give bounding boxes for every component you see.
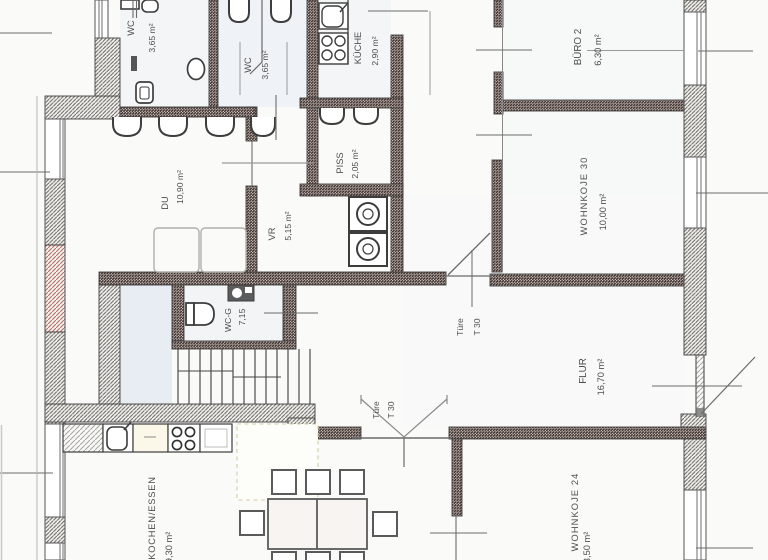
wall HD BUERO2 bottom [503, 100, 684, 111]
faucet mark WC1 [131, 56, 137, 71]
svg-text:T 30: T 30 [386, 401, 396, 418]
door leaf WC2 [275, 95, 277, 140]
faint page edge line bottom-left [1, 425, 3, 560]
svg-text:10,00 m²: 10,00 m² [598, 194, 608, 231]
svg-text:WOHNKOJE 24: WOHNKOJE 24 [570, 473, 580, 552]
wall V6 stub above VR [246, 107, 257, 141]
dim line top-left [0, 32, 52, 34]
chair right [373, 512, 397, 536]
double door swing kitchen [361, 395, 447, 437]
entrance leaf nub [697, 408, 704, 416]
wall right outer pier1 [684, 85, 706, 157]
wall right outer pier2 [684, 228, 706, 355]
basin row DU 1 [113, 117, 275, 136]
svg-text:WC: WC [243, 57, 253, 73]
room tint FLUR [403, 196, 684, 427]
dim line buero door [476, 49, 532, 51]
wall left outer red section [45, 245, 65, 332]
svg-text:13,50 m²: 13,50 m² [582, 532, 592, 560]
tick WC2 label right [286, 42, 288, 95]
svg-text:6,30 m²: 6,30 m² [593, 34, 603, 66]
door WOHNKOJE24 leaf [455, 516, 457, 560]
dim line top corridor [368, 10, 428, 12]
dim line left window1 [0, 171, 50, 173]
wall right outer top block [684, 0, 706, 12]
shower DU right [201, 228, 246, 272]
wall V5 WOHNKOJE30 left [492, 160, 502, 272]
shower DU left [154, 228, 199, 272]
svg-text:29,30 m²: 29,30 m² [164, 532, 174, 560]
wall HF right part [490, 274, 684, 286]
svg-text:PISS: PISS [335, 152, 345, 173]
svg-text:WC-G: WC-G [223, 308, 233, 332]
toilet WC-G [186, 303, 214, 325]
svg-text:WC: WC [126, 20, 136, 36]
svg-text:FLUR: FLUR [578, 358, 589, 384]
svg-text:Türe: Türe [371, 401, 381, 419]
dim line wohnkoje30 door [476, 134, 532, 136]
wall V5 BUERO2 left lower [494, 72, 503, 114]
kitchen sink KUECHE [319, 3, 348, 29]
chair left [240, 511, 264, 535]
threshold corridor door [446, 275, 492, 277]
wall left outer lower [45, 332, 65, 424]
dim line right window2 [696, 192, 768, 194]
svg-text:10,90 m²: 10,90 m² [175, 170, 185, 204]
stove KOCHEN circles [172, 427, 194, 449]
wall HG thick bottom [45, 404, 315, 422]
wall V6 VR left [246, 186, 257, 285]
chair top2 [306, 470, 330, 494]
tick WC2 label left [239, 42, 241, 95]
svg-text:3,65 m²: 3,65 m² [260, 50, 270, 79]
svg-text:16,70 m²: 16,70 m² [596, 359, 606, 396]
door swing corridor T30 [448, 233, 490, 275]
leader WC2 [250, 0, 262, 74]
room tint WC-G [184, 285, 283, 341]
dashed planned area [237, 424, 318, 500]
room tint WC1 [120, 0, 209, 107]
chair top1 [272, 470, 296, 494]
svg-text:WOHNKOJE 30: WOHNKOJE 30 [579, 157, 589, 236]
chair top3 [340, 470, 364, 494]
room tint KUECHE [318, 0, 391, 98]
kitchen counter KOCHEN [63, 424, 232, 452]
wall H5 left segment [315, 427, 361, 439]
dim line right window3 [696, 547, 753, 549]
dim line left window2 [0, 472, 53, 474]
appliance square 1 right of VR [349, 197, 387, 231]
window left upper [45, 119, 65, 179]
dining table [268, 499, 367, 549]
wall HB WC bottom [120, 107, 255, 117]
door leaf VR [251, 141, 253, 186]
window top [95, 0, 108, 38]
svg-text:5,15 m²: 5,15 m² [283, 211, 293, 240]
room tint BUERO2 [503, 0, 684, 100]
leader WC-G [264, 312, 318, 314]
leader T30 [471, 250, 473, 307]
appliance square 2 right of VR [349, 233, 387, 266]
faucet KOCHEN [124, 422, 131, 430]
wall HF left part [99, 272, 446, 285]
window right3 [684, 490, 706, 560]
dishwasher tick [144, 436, 156, 438]
svg-text:BÜRO 2: BÜRO 2 [573, 29, 584, 65]
dim tick top corridor vertical [429, 11, 431, 95]
wall H5 right segment [449, 427, 706, 439]
wall left outer upper [45, 179, 65, 245]
window right1 [684, 12, 706, 85]
toilet WC1 top [121, 0, 158, 12]
toilet WC2 left [229, 0, 291, 22]
entrance door leaf [696, 355, 704, 416]
chair bottom2 [306, 552, 330, 560]
svg-text:KÜCHE: KÜCHE [353, 32, 363, 65]
window right2 [684, 157, 706, 228]
entrance dim line [652, 385, 742, 387]
wall WC-G bottom [172, 341, 296, 349]
wall V9 WC-G right [283, 283, 296, 349]
pipe lines WC1 top [132, 0, 134, 18]
window left lower1 [45, 424, 65, 517]
entrance door swing [701, 357, 755, 414]
sink KOCHEN bowl [107, 427, 127, 450]
svg-text:KOCHEN/ESSEN: KOCHEN/ESSEN [147, 476, 157, 559]
svg-text:7,15: 7,15 [237, 308, 247, 325]
stairs treads [178, 349, 310, 404]
wall face line x502 [502, 0, 504, 272]
window left lower2 [45, 543, 65, 560]
room tint WC2 [218, 0, 307, 107]
room tint light-shaft room [120, 285, 172, 404]
stairs landing lines [178, 371, 281, 377]
wall HC KUECHE bottom [300, 98, 403, 108]
wall V10 WOHNKOJE24 left [452, 429, 462, 516]
urinal PISS 1 [320, 108, 378, 124]
sink WC-G top [228, 285, 254, 301]
wall V7 stair block left [99, 285, 120, 404]
stove KUECHE [319, 33, 348, 64]
wall V8 WC-G left [172, 283, 184, 349]
door WOHNKOJE24 tick [430, 532, 487, 534]
svg-text:T 30: T 30 [472, 318, 482, 335]
washbasin WC1 round right [188, 59, 205, 80]
wall V2 between WC1 and WC2 [209, 0, 218, 107]
svg-text:VR: VR [267, 227, 277, 240]
svg-text:Türe: Türe [455, 318, 465, 336]
wall V5 BUERO2 left upper [494, 0, 503, 27]
chair bottom1 [272, 552, 296, 560]
wall V4 KUECHE/PISS right [391, 35, 403, 275]
dim line buero window inner [587, 50, 684, 52]
wall top-left corner block [45, 96, 120, 119]
center post kitchen door [403, 438, 405, 467]
wall right outer below entrance [681, 414, 706, 429]
wall top window pier [95, 38, 120, 96]
room tint WOHNKOJE30 [503, 111, 684, 272]
threshold kitchen double door [352, 437, 452, 439]
wall right outer pier3 [684, 429, 706, 490]
dim line right window1 [698, 50, 753, 52]
counter edge KUECHE [347, 0, 349, 64]
wall left pier between lower windows [45, 517, 65, 543]
boundary line left outside [36, 96, 38, 560]
wall HG step piece [288, 418, 315, 432]
svg-text:3,65 m²: 3,65 m² [147, 23, 157, 52]
wall V3 WC2/KUECHE + PISS left [307, 0, 318, 196]
svg-text:DU: DU [160, 196, 170, 209]
svg-text:2,90 m²: 2,90 m² [370, 36, 380, 65]
lintel line VR [222, 162, 313, 164]
wall HE PISS bottom [300, 184, 403, 196]
washbasin WC1 toilet [136, 82, 153, 103]
chair bottom3 [340, 552, 364, 560]
svg-text:2,05 m²: 2,05 m² [350, 149, 360, 178]
